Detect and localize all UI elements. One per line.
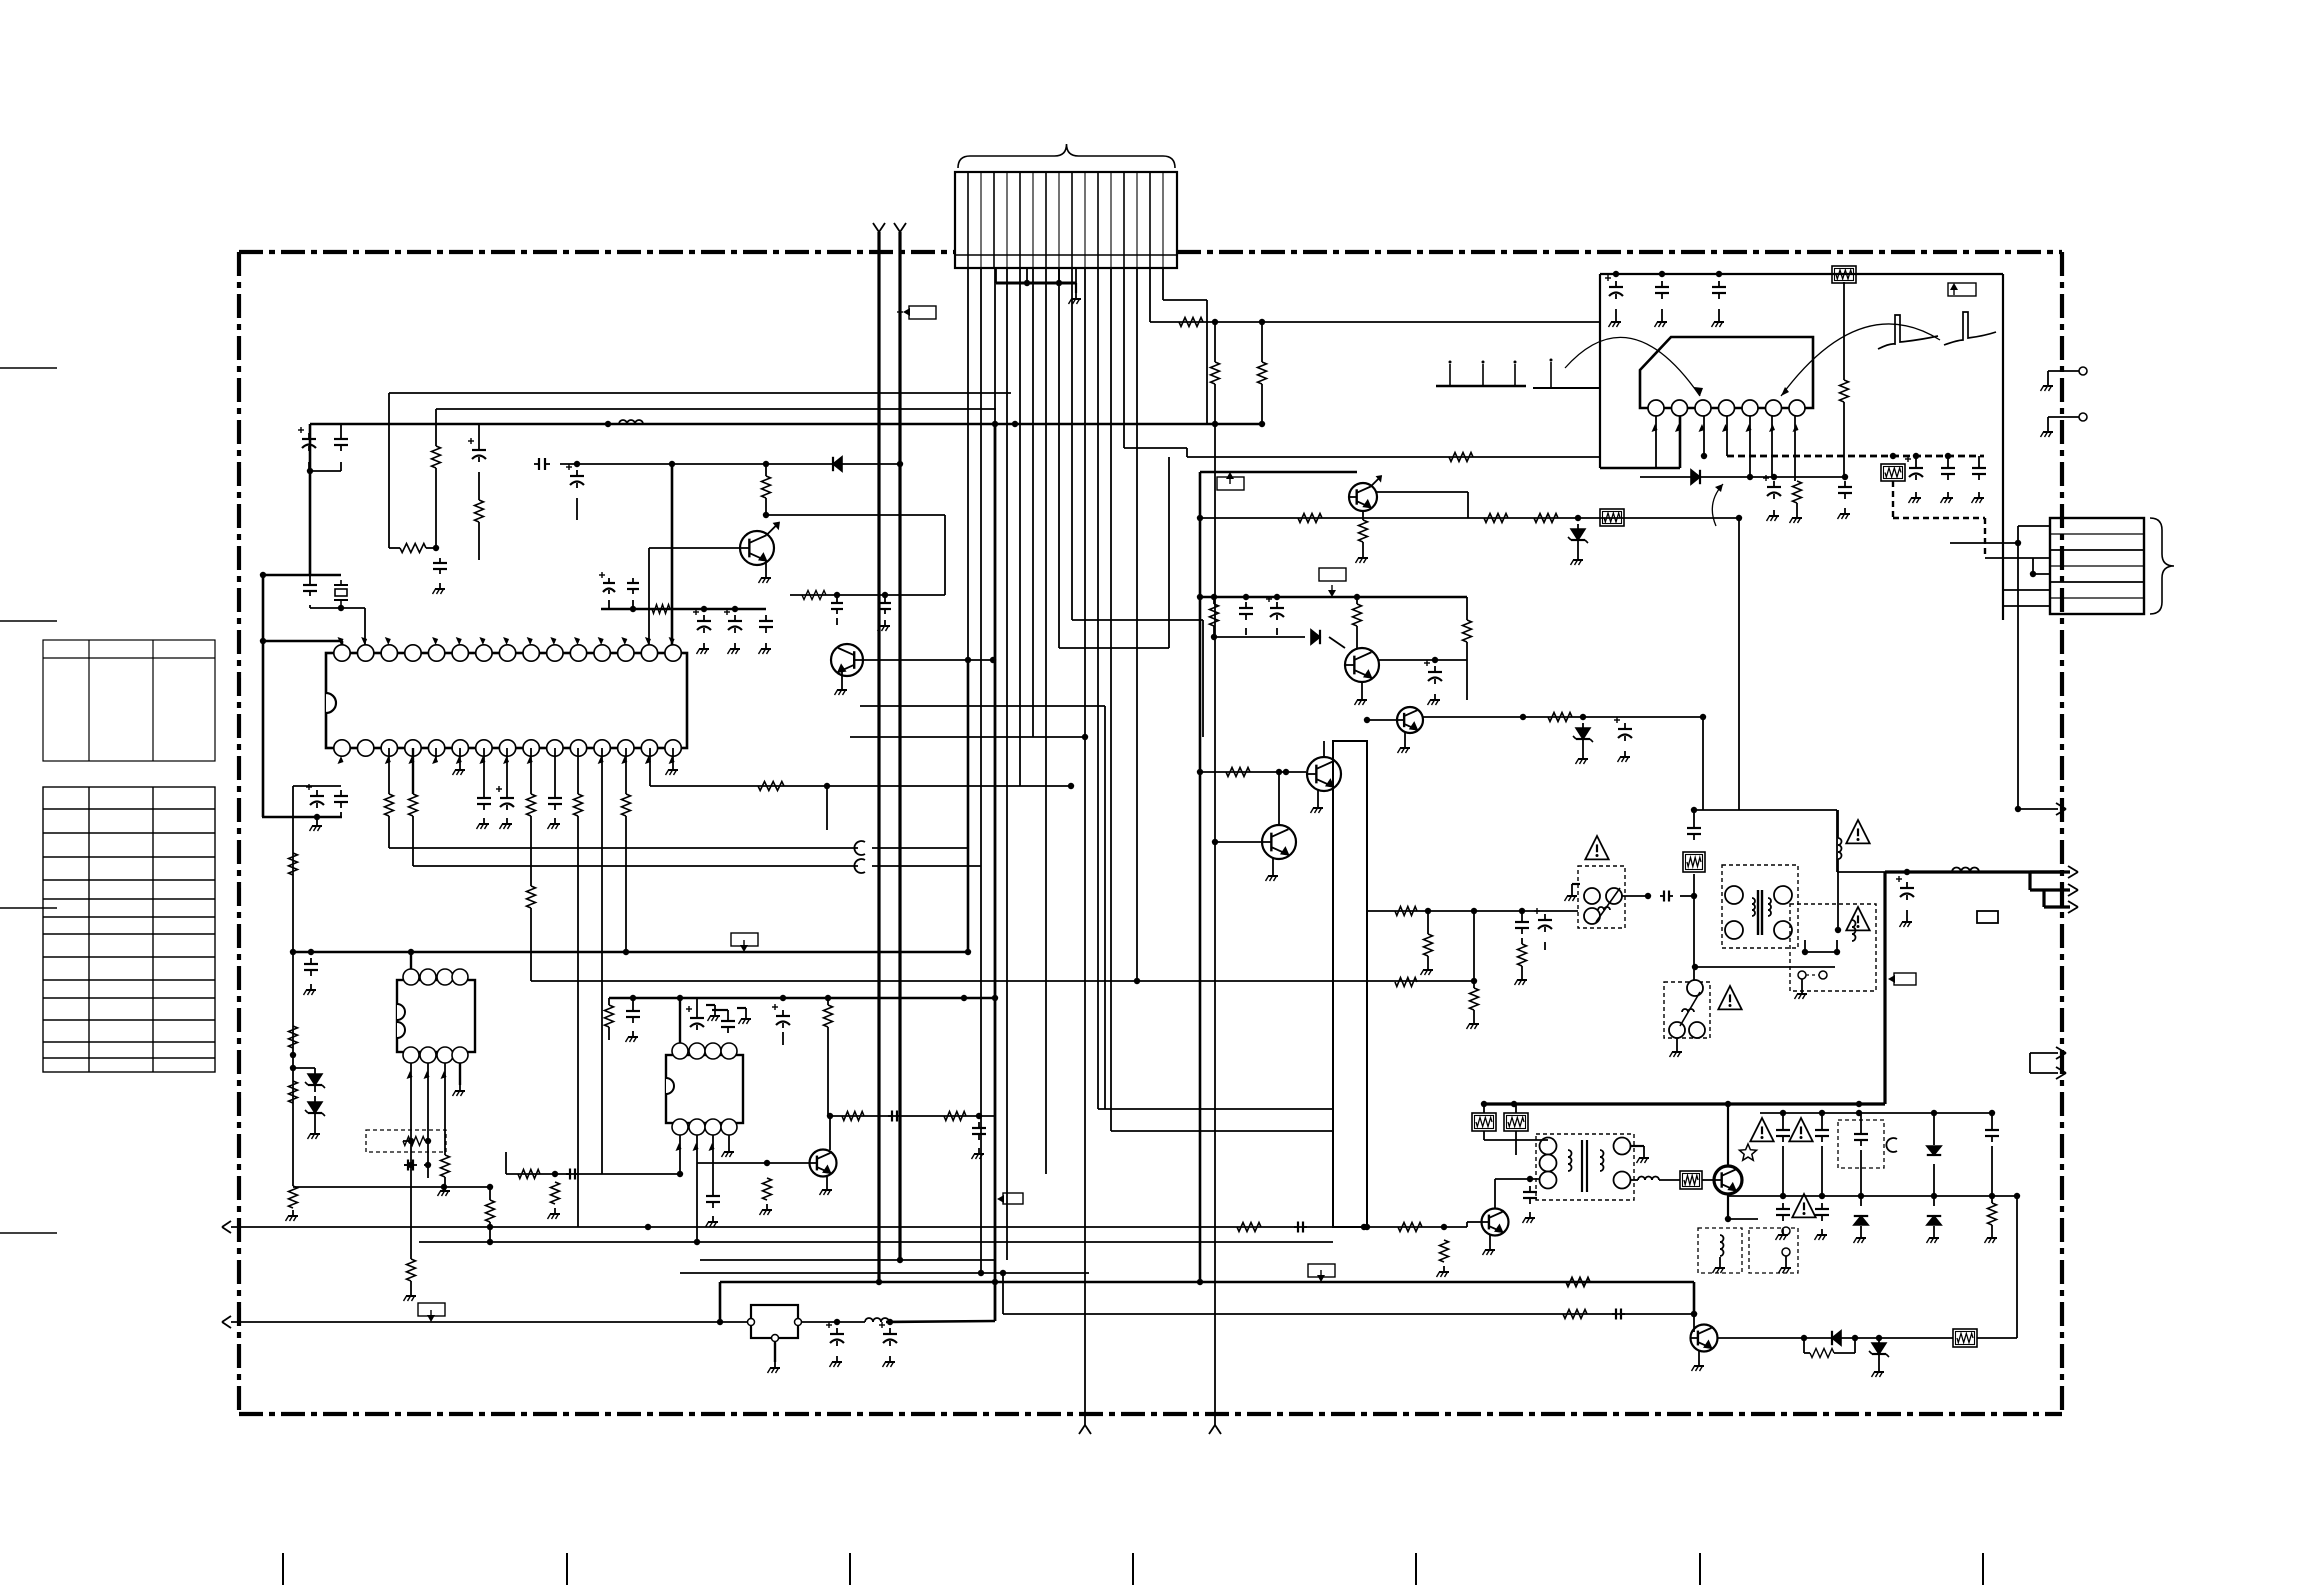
IC1 bottom pin13 arrow xyxy=(621,756,627,764)
IC1 pin drop 15 ground xyxy=(672,748,674,764)
vertical x1703 xyxy=(1702,717,1704,810)
resistor R (in dashed box) xyxy=(403,1140,411,1142)
diode D (x1934b) xyxy=(1933,1196,1935,1206)
IC1 top pin15 arrow xyxy=(669,637,675,645)
resistor R (h y548) xyxy=(389,547,400,549)
IC1 pin drop 8 electrolytic xyxy=(506,748,508,792)
IC1 bottom pin8 arrow xyxy=(503,756,509,764)
power output arrow 1 xyxy=(2030,870,2070,873)
wire Q base x1397 xyxy=(1367,719,1397,721)
wire pin6 drop xyxy=(1032,268,1034,737)
page border (dash-dot PCB outline) top-left segment xyxy=(239,250,955,254)
IC3 supply drop xyxy=(679,998,681,1043)
IC4 pin7 arrow xyxy=(1793,424,1799,432)
IC1 bottom pin9 arrow xyxy=(527,756,533,764)
resistor R (x293a) xyxy=(289,853,298,875)
bold wire y641 xyxy=(263,640,342,643)
capacitor C (h y1116) xyxy=(888,1115,892,1117)
label box (x1977) xyxy=(1977,911,1998,923)
IC2 8-pin body with pins xyxy=(397,980,475,1052)
wire pin16 drop xyxy=(1162,268,1164,300)
capacitor C (x633) xyxy=(632,578,634,583)
resistor R (x1522) xyxy=(1518,944,1527,966)
left fold mark 2 xyxy=(0,620,57,622)
capacitor C (x1662) xyxy=(1661,281,1663,287)
waveform sketch (left) xyxy=(1533,387,1600,389)
inductor L (y872) xyxy=(1952,868,1961,872)
electrolytic C (x317) xyxy=(316,790,318,796)
bold wire y1321 xyxy=(798,1321,865,1323)
IC1 pin drop 14 wire right xyxy=(649,748,651,786)
IC2 pin drop3 xyxy=(444,1063,446,1155)
bottom tick mark 5 xyxy=(1415,1553,1417,1585)
ground (regulator) xyxy=(774,1342,776,1362)
dashed cap box xyxy=(1838,1120,1884,1168)
transformer T2 windings xyxy=(1540,1138,1557,1155)
electrolytic C (x479) xyxy=(478,424,480,444)
bold bus y998 xyxy=(609,997,995,999)
wire pin15 drop xyxy=(1149,268,1151,322)
IC1 top pin5 arrow xyxy=(432,637,438,645)
transistor Q (x1704 y1338) xyxy=(1691,1325,1718,1352)
vertical wire x1169 xyxy=(1168,457,1170,648)
inductor L (x1838) xyxy=(1837,810,1839,838)
IC4 pin2 bold drop xyxy=(1679,416,1682,468)
IC3 pin drop4 ground xyxy=(728,1135,730,1146)
transistor Q (x1279 y842) xyxy=(1262,825,1296,859)
ground (SW2) xyxy=(1676,1038,1678,1046)
vertical x2017 xyxy=(2016,1196,2018,1338)
capacitor C (x1719) xyxy=(1718,281,1720,287)
wire y595 xyxy=(790,594,945,596)
wire pin9 drop xyxy=(1071,268,1073,620)
wire pin10 drop long to Y xyxy=(1084,268,1086,1425)
wire y737 xyxy=(850,736,1085,738)
electrolytic C (x704) xyxy=(703,615,705,621)
resistor R (y911) xyxy=(1395,907,1417,916)
resistor R (y1227) xyxy=(1237,1223,1261,1232)
label box (y1305) xyxy=(418,1303,445,1316)
bottom tick mark 6 xyxy=(1699,1553,1701,1585)
narrow tall box xyxy=(1333,741,1367,1227)
vertical x490 xyxy=(489,1187,491,1200)
resistor R (x767) xyxy=(763,1178,772,1200)
bold vertical x1885 xyxy=(1883,872,1886,1104)
IC3 pin drop3 xyxy=(712,1135,714,1190)
capacitor C (x1783b) xyxy=(1782,1203,1784,1209)
fusible resistor (top edge) xyxy=(1832,266,1856,283)
IC1 pin drop 6 ground xyxy=(459,748,461,764)
fusible resistor (y1338) xyxy=(1953,1329,1977,1347)
ground (Q x1362) xyxy=(1361,682,1363,694)
label box (y583) xyxy=(1319,568,1346,581)
wire pin8 drop xyxy=(1058,268,1060,648)
warning triangle (x1760) xyxy=(1750,1118,1773,1141)
voltage regulator box xyxy=(751,1305,798,1338)
wire servo y490 xyxy=(1738,490,1740,518)
vertical x827 xyxy=(826,786,828,830)
left fold mark 1 xyxy=(0,367,57,369)
bold vertical x263 lower xyxy=(262,641,265,817)
output arrow (y1053) xyxy=(2030,1052,2058,1054)
IC1 top pin12 arrow xyxy=(598,637,604,645)
Q collector x1279 xyxy=(1278,772,1280,825)
wire pin14 drop xyxy=(1136,268,1138,981)
transformer T1 windings xyxy=(1725,886,1743,904)
resistor R (x1467) xyxy=(1466,597,1468,620)
vertical Y-wire x1215 xyxy=(1214,425,1216,1425)
parallel resistor (y1353) xyxy=(1803,1338,1805,1353)
resistor R (x293b) xyxy=(289,1026,298,1048)
IC2 pin drop1 xyxy=(410,1063,412,1259)
wire y706 xyxy=(860,705,1105,707)
transformer T2 wires xyxy=(1484,1139,1548,1141)
electrolytic C (x609) xyxy=(608,578,610,583)
c-hook (y848) xyxy=(854,841,865,855)
wire Q collector xyxy=(829,1116,831,1150)
bold power wire y872 xyxy=(1885,870,2062,873)
diode D (y464) xyxy=(833,457,842,471)
electrolytic C (x577) xyxy=(576,470,578,476)
IC1 bottom pin15 arrow xyxy=(669,756,675,764)
vertical wire x1203 xyxy=(1202,620,1204,737)
fusible resistor (x1893) xyxy=(1881,464,1905,481)
electrolytic C (x1616) xyxy=(1615,281,1617,287)
IC3 8-pin body with pins xyxy=(666,1055,743,1123)
Q collector to box top xyxy=(1323,741,1325,757)
transformer T1 dashed box xyxy=(1722,865,1798,948)
label box (x1003) xyxy=(1003,1193,1023,1204)
bold vertical x263 xyxy=(262,575,265,641)
capacitor (crystal cct) xyxy=(309,580,311,585)
bold bus y597 xyxy=(1200,596,1467,599)
bottom tick mark 2 xyxy=(566,1553,568,1585)
wire y786 left xyxy=(293,785,341,787)
wire y842 xyxy=(1215,841,1262,843)
IC3 pin drop2 xyxy=(696,1135,698,1242)
IC1 pin drop 5 xyxy=(435,748,437,762)
IC2 pin arrows xyxy=(407,1071,413,1079)
IC1 pin drop 3 w/ resistor xyxy=(388,748,390,794)
long wire y848 xyxy=(389,847,858,849)
electrolytic C (x890) xyxy=(889,1328,891,1334)
wire y911 xyxy=(1367,910,1578,912)
long wire y981 xyxy=(531,980,1474,982)
vertical x1837 xyxy=(1836,810,1838,872)
bold supply bus y424 xyxy=(310,423,1262,426)
diode D (y1338) xyxy=(1832,1331,1841,1345)
wire y1116 xyxy=(830,1115,995,1117)
resistor R (x1215) xyxy=(1214,322,1216,362)
bold bus y1282 end xyxy=(1693,1282,1696,1314)
capacitor C (x1822) xyxy=(1821,1113,1823,1124)
electrolytic C (x1435) xyxy=(1434,666,1436,672)
warning triangle (x1804) xyxy=(1792,1194,1815,1217)
dashed bus to right xyxy=(1893,517,1985,519)
wire Q base x1481 xyxy=(1467,1221,1481,1223)
vertical x1739 xyxy=(1738,518,1740,810)
resistor R (x1992b) xyxy=(1991,1196,1993,1203)
vertical x1474 xyxy=(1473,911,1475,982)
bold bus y1104 xyxy=(1484,1102,1885,1105)
electrolytic C (x735) xyxy=(734,615,736,621)
IC1 pin drop 9 resistors xyxy=(530,748,532,794)
IC1 pin drop 11 resistor long xyxy=(577,748,579,794)
IC4 pin3 arrow xyxy=(1699,424,1705,432)
wire pin5 drop xyxy=(1019,268,1021,786)
electrolytic C (x837) xyxy=(836,1328,838,1334)
IC1 top pin3 arrow xyxy=(385,637,391,645)
resistor R (y1227b) xyxy=(1398,1223,1422,1232)
capacitor C (x341b) xyxy=(340,790,342,796)
resistor R (x293c) xyxy=(289,1081,298,1103)
IC4 pin1 arrow xyxy=(1652,424,1658,432)
bold vertical x720 xyxy=(719,1282,722,1322)
resistor R (x609) xyxy=(608,998,610,1005)
fusible resistor (y518) xyxy=(1600,509,1624,526)
input arrow (y1227) xyxy=(222,1221,231,1227)
zener D (x315a) xyxy=(293,1067,315,1069)
IC1 top pin8 arrow xyxy=(503,637,509,645)
resistor R (y322) xyxy=(1179,318,1203,327)
IC4 outer frame left xyxy=(1599,274,1601,468)
bold bus y1282 xyxy=(720,1281,1694,1284)
wire y464 xyxy=(560,463,900,465)
capacitor C (x1530) xyxy=(1529,1186,1531,1192)
vertical wire x389 xyxy=(388,393,390,548)
vertical x2018 xyxy=(2017,543,2019,809)
input arrow (y1322) xyxy=(222,1316,231,1322)
IC4 pin1 drop xyxy=(1655,416,1657,468)
ground (Q x1495) xyxy=(1489,1234,1491,1244)
IC4 pin5 drop xyxy=(1749,416,1751,477)
capacitor C (x1845) xyxy=(1844,481,1846,487)
IC1 main DIP body with pins xyxy=(326,653,687,748)
wire pin1 link xyxy=(341,641,344,652)
transistor Q (pre-amp) xyxy=(740,531,774,565)
electrolytic C (x697b) xyxy=(696,998,698,1012)
ground (Q emitter) xyxy=(765,561,767,572)
transistor Q (x1362 y665) xyxy=(1345,648,1379,682)
IC2 pin drop4 bold ground xyxy=(459,1063,461,1085)
resistor R (x1357) xyxy=(1356,597,1358,604)
IC3 pin arrows xyxy=(676,1143,682,1151)
wire pin12 drop xyxy=(1110,268,1112,1131)
IC4 pin6 drop xyxy=(1771,416,1773,477)
warning triangle (x1597) xyxy=(1585,836,1608,859)
bottom tick mark 3 xyxy=(849,1553,851,1585)
transistor Q (x1495) xyxy=(1482,1209,1509,1236)
capacitor C (left) xyxy=(340,433,342,439)
transistor Q (x823) xyxy=(810,1150,837,1177)
fusible resistor (y1180) xyxy=(1659,1179,1680,1181)
ground (T2) xyxy=(1630,1145,1644,1147)
IC1 pin drop 13 resistor xyxy=(625,748,627,794)
capacitor C (x1948) xyxy=(1947,456,1949,462)
resistor R (x411) xyxy=(407,1259,416,1281)
fusible resistor (x1694) xyxy=(1683,852,1705,872)
label box (near connector) xyxy=(909,306,936,319)
star mark xyxy=(1739,1144,1756,1160)
IC1 bottom pin14 arrow xyxy=(645,756,651,764)
wire y1273 xyxy=(680,1272,1089,1274)
wire y518 xyxy=(1200,517,1739,519)
bold vertical x968 xyxy=(967,660,970,952)
capacitor C (y464 left) xyxy=(534,463,539,465)
label box (x1894) xyxy=(1894,973,1916,985)
IC1 bottom pin4 arrow xyxy=(408,756,414,764)
wire y322 xyxy=(1150,321,1600,323)
right connector (6-way) xyxy=(2050,518,2144,614)
wire pin4 drop long xyxy=(1006,268,1008,1260)
switch contact (y417) xyxy=(2048,416,2079,418)
wire T2 out y1180 xyxy=(1630,1179,1638,1181)
capacitor C (x1694t) xyxy=(1693,822,1695,828)
wire Q collector y490 xyxy=(1377,491,1468,493)
long wire y409 xyxy=(436,408,996,410)
bottom tick mark 4 xyxy=(1132,1553,1134,1585)
resistor R (y457) xyxy=(1449,453,1473,462)
leader arc 2 xyxy=(1781,324,1940,396)
power output arrow 2 xyxy=(2030,888,2070,891)
wire y477 xyxy=(1640,476,1845,478)
resistor R (h y609) xyxy=(652,605,670,614)
transformer T1 taps xyxy=(1805,951,1837,953)
resistor R (x479b) xyxy=(475,500,484,522)
parts table 2 xyxy=(43,787,215,1072)
resistor R (x436) xyxy=(435,409,437,446)
power transistor Q (x1728) xyxy=(1714,1166,1742,1194)
resistor R (x293d) xyxy=(289,1186,298,1208)
electrolytic C (x1907) xyxy=(1906,882,1908,888)
warning triangle (x1858a) xyxy=(1846,820,1869,843)
electrolytic C (left) xyxy=(308,433,310,439)
leader arc 1 xyxy=(1565,337,1700,396)
wire Q2 base xyxy=(863,659,993,661)
bold corner at bus left xyxy=(309,424,312,471)
resistor R (y518c) xyxy=(1534,514,1558,523)
bold vertical bus B (Y-top) xyxy=(898,232,901,1260)
electrolytic C (x783) xyxy=(782,1010,784,1016)
wire y772 xyxy=(1200,771,1306,773)
bold vertical x310 xyxy=(309,471,312,575)
rake symbol xyxy=(1436,385,1526,388)
vertical x2030 pair xyxy=(2029,1053,2031,1073)
capacitor C (x1522) xyxy=(1521,911,1523,916)
page border right xyxy=(2060,252,2064,1414)
wire y1227 right part xyxy=(1349,1226,1467,1228)
IC2 supply drop xyxy=(410,952,412,969)
rotary switch SW2 xyxy=(1664,982,1710,1038)
page border top-right segment xyxy=(1177,250,2062,254)
IC1 pin drop 7 capacitor xyxy=(483,748,485,792)
output arrow (y1073) xyxy=(2030,1072,2058,1074)
IC1 top pin14 arrow xyxy=(645,637,651,645)
resistor R (x555) xyxy=(551,1182,560,1204)
capacitor C (h below box) xyxy=(404,1164,411,1166)
bold pin wire x672 xyxy=(671,464,674,652)
wire y457 xyxy=(1187,456,1600,458)
wire pin11 drop xyxy=(1097,268,1099,1109)
IC4 pin4 drop xyxy=(1726,416,1728,456)
wire y1242 xyxy=(419,1241,1333,1243)
resistor R (y1314) xyxy=(1563,1310,1587,1319)
long wire y393 xyxy=(389,392,1011,394)
wire crystal bottom xyxy=(309,605,311,608)
wire pin7 drop xyxy=(1045,268,1047,1174)
resistor R (y717) xyxy=(1548,713,1572,722)
capacitor C (x1822b) xyxy=(1821,1203,1823,1209)
wire y1260 xyxy=(700,1259,995,1261)
wire y717 xyxy=(1423,716,1703,718)
zener D (x1583) xyxy=(1576,728,1590,739)
capacitor C (x311) xyxy=(310,958,312,964)
diode D (x1934) xyxy=(1933,1113,1935,1145)
resistor R (y982) xyxy=(1395,978,1417,987)
bottom tick mark 7 xyxy=(1982,1553,1984,1585)
wire SW1 out xyxy=(1622,895,1648,897)
IC1 top pin7 arrow xyxy=(479,637,485,645)
IC1 top pin11 arrow xyxy=(574,637,580,645)
zener D (x1879) xyxy=(1872,1343,1886,1354)
resistor R (y1282) xyxy=(1566,1278,1590,1287)
wire join caps xyxy=(308,462,310,471)
vertical x649 to pin xyxy=(648,548,650,652)
right connector brace xyxy=(2150,518,2174,614)
bold vertical bus A (Y-top) xyxy=(877,232,880,1282)
resistor R (y786) xyxy=(758,782,784,791)
IC1 pin drop 12 long xyxy=(601,748,603,1174)
power output arrow 3 xyxy=(2044,905,2070,908)
IC1 bottom pin5 arrow xyxy=(432,756,438,764)
capacitor C (h y1314) xyxy=(1612,1313,1616,1315)
wire y1322 xyxy=(231,1321,751,1323)
bold bus y609 xyxy=(601,608,766,610)
wire to right connector 2 xyxy=(2033,573,2050,575)
IC2 pin drop2 xyxy=(427,1063,429,1178)
IC1 bottom pin7 arrow xyxy=(479,756,485,764)
resistor R (y1116a) xyxy=(842,1112,864,1121)
wire to right connector 3 xyxy=(1985,557,2050,559)
label box (y1266) xyxy=(1308,1264,1335,1277)
diode D (y477) xyxy=(1691,470,1700,484)
wire y1187 xyxy=(293,1186,490,1188)
diode D (x1861b) xyxy=(1860,1196,1862,1206)
vertical x1484 xyxy=(1483,1104,1485,1113)
dashed box (service jumper) xyxy=(366,1130,446,1152)
long wire y848 right part xyxy=(872,847,968,849)
IC1 top pin9 arrow xyxy=(527,637,533,645)
IC1 bottom pin1 arrow xyxy=(338,756,344,764)
wire pin1 drop xyxy=(967,268,969,676)
IC4 outer frame right xyxy=(2002,274,2004,620)
IC1 top pin1 arrow xyxy=(338,637,344,645)
bottom tick mark 1 xyxy=(282,1553,284,1585)
capacitor C (x1246) xyxy=(1245,602,1247,608)
rotary switch SW1 xyxy=(1578,866,1625,928)
vertical x1467b xyxy=(1466,660,1468,700)
wire y810 xyxy=(1694,809,1837,811)
connector CN top brace xyxy=(958,144,1175,168)
IC4 outer frame top xyxy=(1600,273,2003,275)
warning triangle (x1730) xyxy=(1718,986,1741,1009)
IC1 bottom pin3 arrow xyxy=(385,756,391,764)
power Q top xyxy=(1727,1104,1729,1166)
capacitor C (x1783) xyxy=(1782,1113,1784,1124)
power Q collector xyxy=(1727,1194,1729,1219)
ground (connector bus) xyxy=(1075,283,1077,293)
wire y896b xyxy=(1680,895,1694,897)
